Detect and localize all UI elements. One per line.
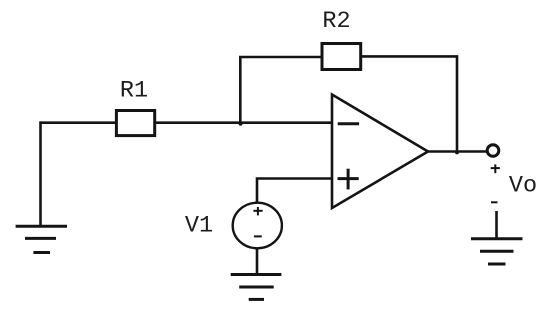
svg-text:V1: V1: [185, 213, 213, 240]
svg-text:Vo: Vo: [509, 172, 537, 199]
svg-text:R2: R2: [322, 8, 350, 35]
svg-text:R1: R1: [120, 78, 148, 105]
